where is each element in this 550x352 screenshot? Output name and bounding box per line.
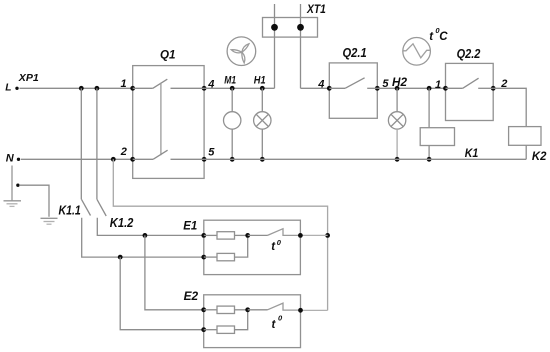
heater E1 box (204, 220, 301, 274)
wire N return path (113, 159, 327, 310)
node H1 junction top (260, 86, 265, 91)
svg-text:0: 0 (278, 313, 283, 322)
resistor E1 top (204, 234, 217, 236)
svg-text:1: 1 (121, 78, 127, 90)
XT1 pin left (274, 4, 276, 88)
svg-text:N: N (6, 152, 15, 164)
svg-text:Q2.2: Q2.2 (457, 47, 481, 61)
node L K1.1 junction (79, 86, 84, 91)
node E1 bottom feed junction (118, 255, 123, 260)
Q1 top contact (133, 79, 204, 88)
sensor t0C (403, 38, 431, 66)
E2 input node top (201, 307, 206, 312)
XT1 pin right (300, 4, 302, 88)
svg-text:5: 5 (208, 147, 215, 159)
wire to E2 top (145, 235, 204, 309)
wire L left segment (20, 87, 133, 89)
Q2.2 contact (446, 78, 494, 88)
E2 output node (298, 308, 303, 313)
relay coil K1 (428, 88, 430, 127)
svg-text:t: t (271, 241, 276, 253)
thermal switch E2 (248, 309, 268, 311)
node K1 junction (427, 86, 432, 91)
node PE terminal (16, 184, 19, 187)
thermal switch E1 (248, 234, 268, 236)
E2 join node (245, 307, 250, 312)
svg-text:2: 2 (120, 146, 127, 158)
thermostat Q2.2 box (446, 63, 494, 120)
E1 input node bottom (201, 255, 206, 260)
ground PE (41, 218, 58, 224)
svg-text:H1: H1 (254, 75, 266, 87)
svg-text:XT1: XT1 (306, 4, 326, 16)
resistor E2 top (204, 309, 217, 311)
svg-text:Q1: Q1 (160, 48, 176, 62)
node N branch junction (111, 157, 116, 162)
Q2.1 contact (329, 78, 377, 89)
resistor E1 bottom (204, 256, 217, 258)
svg-text:1: 1 (435, 79, 441, 91)
node L K1.2 junction (95, 86, 100, 91)
svg-text:K1: K1 (465, 146, 479, 160)
resistor E2 bottom (204, 329, 217, 331)
heater E2 box (204, 295, 301, 348)
svg-text:M1: M1 (224, 75, 236, 87)
svg-text:E2: E2 (184, 289, 199, 303)
wire Q2.1 pin5 to Q2.2 (377, 87, 445, 89)
fan impeller (227, 37, 256, 66)
svg-text:K1.2: K1.2 (110, 216, 134, 230)
node H2 junction (395, 86, 400, 91)
node E1 top feed junction (143, 233, 148, 238)
wire E1 output stub (300, 234, 327, 236)
E1 output node (298, 233, 303, 238)
svg-text:C: C (439, 31, 448, 43)
svg-text:4: 4 (317, 79, 324, 91)
svg-text:0: 0 (277, 238, 282, 247)
wire Q2.2 pin2 to K2 (493, 88, 526, 126)
svg-text:L: L (5, 82, 11, 93)
wire N right segment (204, 158, 526, 160)
svg-text:E1: E1 (183, 218, 197, 232)
wire E2 output stub (301, 309, 328, 311)
E1 join node (245, 233, 250, 238)
node E1 return junction (325, 233, 330, 238)
switch Q1 box (133, 66, 204, 179)
E2 input node bottom (201, 327, 206, 332)
Q1 bottom contact (133, 150, 204, 159)
wire XT1 to Q2.1 (301, 87, 330, 89)
wire PE to ground (20, 185, 49, 217)
wire Q1 pin4 to XT1 (204, 87, 274, 89)
Q1 mechanical link (160, 83, 162, 156)
svg-text:K1.1: K1.1 (59, 204, 81, 218)
svg-text:XP1: XP1 (18, 73, 40, 84)
node M1 junction top (230, 86, 235, 91)
svg-text:K2: K2 (532, 149, 547, 163)
thermostat Q2.1 box (329, 63, 377, 118)
relay coil K2 (509, 127, 541, 146)
wire to E2 bottom (120, 257, 204, 330)
svg-text:t: t (429, 31, 434, 43)
svg-text:H2: H2 (392, 77, 408, 89)
wire N left segment (21, 158, 133, 160)
ground under N (4, 166, 22, 207)
svg-text:t: t (272, 319, 277, 331)
svg-text:Q2.1: Q2.1 (343, 46, 367, 60)
E1 input node top (201, 233, 206, 238)
